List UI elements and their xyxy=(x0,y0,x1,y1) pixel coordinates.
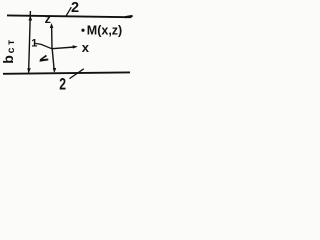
x-axis arrow xyxy=(52,47,75,49)
top boundary line end tick xyxy=(125,16,133,17)
leader slash for bottom label 2 xyxy=(70,69,84,79)
svg-text:b: b xyxy=(0,55,16,64)
bottom boundary line (surface 2) xyxy=(3,72,130,73)
leader line from label 1 to origin xyxy=(35,43,52,48)
dimension line b_st (left) xyxy=(29,11,31,73)
svg-text:2: 2 xyxy=(59,76,66,94)
svg-text:1: 1 xyxy=(31,38,37,50)
svg-text:ст: ст xyxy=(5,37,17,53)
svg-text:M(x,z): M(x,z) xyxy=(87,24,122,38)
dimension arrowhead bottom xyxy=(27,68,31,73)
top boundary line (surface 2) xyxy=(7,15,132,17)
point M marker xyxy=(81,29,84,32)
leader slash for top label 2 xyxy=(66,7,72,16)
label s xyxy=(40,55,49,62)
line from origin to bottom surface xyxy=(52,49,54,72)
z-axis arrow xyxy=(51,25,53,49)
svg-text:x: x xyxy=(82,40,90,55)
arrowhead at bottom surface xyxy=(53,68,57,73)
svg-text:2: 2 xyxy=(71,0,79,16)
dimension arrowhead top xyxy=(29,16,33,21)
svg-text:z: z xyxy=(45,12,51,26)
